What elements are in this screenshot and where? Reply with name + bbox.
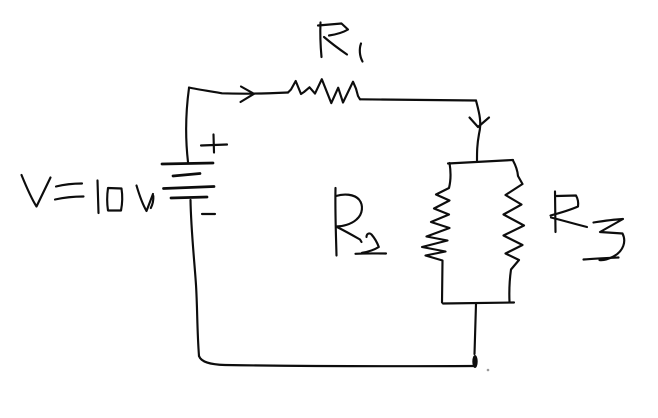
current arrow right bbox=[241, 87, 255, 103]
resistor R1 bbox=[288, 79, 360, 103]
stray ink dot bbox=[487, 369, 490, 372]
label V = 10V bbox=[22, 175, 154, 213]
label R1 bbox=[318, 23, 363, 62]
wire top horizontal bbox=[189, 88, 288, 94]
battery plus polarity bbox=[201, 135, 227, 153]
resistor R3 bbox=[504, 161, 525, 303]
battery minus polarity bbox=[202, 213, 215, 215]
node junction dot bbox=[472, 355, 477, 368]
wire bottom horizontal bbox=[199, 356, 474, 366]
wire top bar of parallel network bbox=[448, 160, 513, 164]
label R3 bbox=[551, 192, 625, 261]
resistor R2 bbox=[422, 163, 451, 303]
wire right vertical bbox=[476, 101, 480, 161]
label R2 bbox=[335, 188, 386, 256]
wire battery top to corner bbox=[186, 88, 189, 162]
current arrow down bbox=[470, 118, 490, 128]
wire bottom bar of parallel network bbox=[443, 303, 514, 304]
wire left vertical bbox=[191, 200, 200, 356]
battery V1 bbox=[162, 163, 214, 198]
wire bottom bar to junction bbox=[475, 304, 477, 354]
wire R1 to right corner bbox=[360, 99, 476, 100]
